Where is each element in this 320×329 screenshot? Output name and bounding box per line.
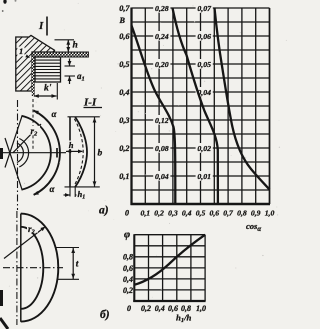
svg-text:0,2: 0,2 (123, 286, 133, 295)
small hub arcs (17, 143, 23, 162)
inner arc (pole face) (22, 116, 51, 190)
svg-text:0,28: 0,28 (155, 4, 169, 13)
inner label 0,12 (153, 115, 170, 125)
bottom extension line (65, 186, 100, 188)
dimension h (shoe height) (55, 39, 75, 41)
dimension h1 (69, 187, 71, 197)
dimension a1 (lamination) (65, 65, 76, 67)
svg-text:t: t (76, 260, 79, 270)
section left edge (69, 117, 71, 187)
label h (68, 141, 75, 150)
scan mark left edge low (0, 290, 3, 306)
scan mark bottom-left corner (0, 318, 8, 329)
svg-text:0,02: 0,02 (197, 144, 211, 153)
svg-text:0,8: 0,8 (237, 209, 247, 218)
radius r2 leader (4, 227, 46, 259)
svg-text:B: B (119, 16, 126, 25)
svg-text:0,8: 0,8 (123, 253, 133, 262)
inner label 0,04 (196, 87, 213, 97)
svg-text:0,20: 0,20 (155, 60, 169, 69)
vertical centerline (dash-dot) (16, 211, 18, 325)
big chart axes (130, 8, 132, 206)
inner label 0,08 (153, 143, 170, 153)
outer semi-ellipse (21, 214, 59, 322)
pole core with shoe (hatched) (16, 35, 55, 91)
scan mark top-left (3, 0, 6, 4)
inner label 0,20 (153, 59, 170, 69)
svg-text:0,24: 0,24 (155, 32, 169, 41)
top extension line (68, 116, 100, 118)
vertical centerline (dash-dot) (17, 100, 19, 210)
inner semi-ellipse (21, 227, 43, 309)
section curved right edge (75, 117, 87, 187)
svg-text:0,1: 0,1 (119, 172, 129, 181)
svg-text:0,1: 0,1 (140, 209, 150, 218)
svg-text:1: 1 (19, 46, 23, 56)
svg-text:0,05: 0,05 (197, 60, 211, 69)
svg-text:а): а) (99, 205, 109, 217)
svg-text:h1/h: h1/h (176, 313, 192, 325)
svg-text:0,2: 0,2 (141, 304, 151, 313)
svg-text:0,07: 0,07 (197, 4, 212, 13)
outer arc (stator bore) with arrowheads (34, 111, 60, 195)
svg-text:0,5: 0,5 (196, 209, 206, 218)
svg-text:0,6: 0,6 (209, 209, 219, 218)
label r2 (27, 224, 38, 233)
svg-text:0,06: 0,06 (197, 32, 211, 41)
curve A (132, 26, 176, 204)
svg-text:0,4: 0,4 (119, 88, 129, 97)
svg-text:0,4: 0,4 (182, 209, 192, 218)
dimension h of bulge (66, 150, 82, 152)
svg-text:0,6: 0,6 (119, 32, 130, 41)
svg-text:0,3: 0,3 (168, 209, 178, 218)
svg-text:0,2: 0,2 (119, 144, 129, 153)
svg-text:0,9: 0,9 (251, 209, 261, 218)
svg-text:1,0: 1,0 (196, 304, 206, 313)
small chart grid (134, 235, 205, 301)
dimension k' (56, 83, 58, 100)
svg-text:б): б) (100, 309, 110, 321)
svg-text:0: 0 (125, 209, 129, 218)
svg-text:0,7: 0,7 (119, 4, 130, 13)
radius r2 leader (13, 124, 41, 153)
air gap tick (56, 148, 58, 158)
inner label 0,28 (153, 3, 170, 13)
inner label 0,24 (153, 31, 170, 41)
svg-text:0,6: 0,6 (123, 264, 133, 273)
big chart grid (132, 8, 270, 204)
label 1 with leader (17, 47, 24, 57)
small chart curve (134, 235, 205, 285)
svg-text:b: b (98, 149, 103, 159)
svg-text:0,4: 0,4 (123, 275, 133, 284)
svg-text:0,7: 0,7 (223, 209, 234, 218)
curve B (173, 8, 218, 203)
field coil block (horizontal hatching) (35, 57, 61, 82)
svg-text:0,12: 0,12 (155, 116, 169, 125)
inner label 0,05 (196, 59, 213, 69)
horizontal centerline (2, 152, 66, 154)
flat left side (20, 214, 22, 322)
svg-text:0,2: 0,2 (154, 209, 164, 218)
inner label 0,04 (153, 171, 170, 181)
dashed inner profile (74, 119, 83, 185)
dimension b (94, 117, 96, 187)
svg-text:I: I (38, 20, 44, 32)
svg-text:h: h (73, 41, 78, 51)
label r2 (30, 126, 41, 135)
pole side chords (5, 116, 22, 168)
svg-text:I-I: I-I (83, 97, 97, 109)
small chart axes (133, 234, 135, 302)
dimension t (56, 247, 80, 249)
svg-text:0: 0 (127, 304, 131, 313)
svg-text:1,0: 1,0 (265, 209, 275, 218)
curve C (215, 8, 270, 190)
dotted band along coil left (32, 57, 35, 96)
scan mark left edge mid (0, 148, 3, 159)
svg-text:φ: φ (124, 230, 130, 241)
svg-text:h: h (69, 140, 74, 150)
inner label 0,02 (196, 143, 213, 153)
svg-text:k': k' (44, 84, 52, 94)
svg-text:0,08: 0,08 (155, 144, 169, 153)
insulation strip (dotted) (32, 52, 88, 57)
svg-text:0,5: 0,5 (119, 60, 129, 69)
svg-text:0,3: 0,3 (119, 116, 129, 125)
svg-text:0,4: 0,4 (155, 304, 165, 313)
inner label 0,01 (196, 171, 213, 181)
section line I (46, 17, 48, 36)
label h1 (77, 189, 88, 199)
svg-text:0,01: 0,01 (197, 172, 211, 181)
dashed extension line from k' (32, 99, 34, 150)
inner label 0,07 (196, 3, 213, 13)
inner label 0,06 (196, 31, 213, 41)
horizontal centerline (dash-dot) (3, 267, 63, 269)
